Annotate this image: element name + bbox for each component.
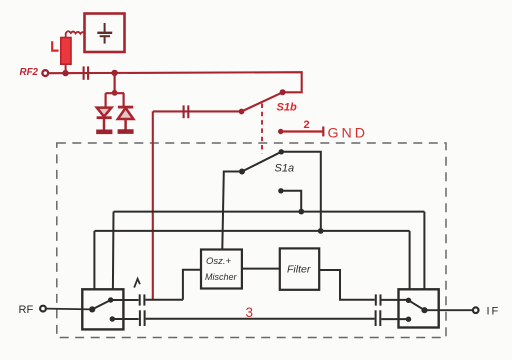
IF switch pivot bbox=[421, 307, 427, 313]
RF upper contact bbox=[108, 297, 113, 302]
bus B right drop bbox=[409, 231, 411, 289]
bus B (lower horizontal) bbox=[95, 230, 410, 232]
wire lower contact to C4 bbox=[112, 318, 138, 320]
svg-text:GND: GND bbox=[328, 125, 369, 141]
ground D1 bbox=[96, 130, 112, 135]
wire lower contact to bus A bbox=[281, 191, 301, 212]
dashed enclosure box (shield/case outline) bbox=[57, 143, 446, 338]
node at diode branch top bbox=[112, 90, 118, 96]
IF switch box S3 bbox=[399, 289, 439, 327]
switch S1b arm bbox=[239, 89, 286, 114]
wire S1a throw to bus B bbox=[281, 152, 321, 231]
svg-text:2: 2 bbox=[304, 119, 310, 131]
wire squiggle from inductor top to box bbox=[66, 31, 86, 38]
long bottom wire to C6 bbox=[146, 318, 375, 320]
wire cap to IF switch bbox=[382, 299, 409, 301]
node on bus A bbox=[298, 209, 304, 215]
svg-text:Mischer: Mischer bbox=[205, 272, 238, 282]
IF terminal bbox=[473, 307, 479, 313]
bus A (upper horizontal) bbox=[114, 211, 425, 213]
IF switch arm bbox=[409, 300, 425, 310]
wire mixer to filter bbox=[242, 268, 280, 270]
capacitor C4 bbox=[140, 310, 145, 326]
RF lower contact bbox=[110, 316, 115, 321]
svg-text:RF2: RF2 bbox=[20, 67, 39, 78]
RF switch arm bbox=[92, 300, 111, 309]
IF lower contact bbox=[406, 317, 411, 322]
wire upper contact to C3 bbox=[111, 299, 139, 301]
wire mixer left to RF path bbox=[183, 270, 201, 300]
filter box U3 bbox=[280, 248, 319, 289]
capacitor C3 bbox=[140, 294, 145, 305]
bus A left drop bbox=[112, 212, 115, 290]
wire C6 to IF switch bbox=[381, 318, 408, 320]
wire filter to IF cap bbox=[319, 270, 375, 300]
GND stub: node 2 bbox=[278, 129, 283, 134]
svg-text:RF: RF bbox=[19, 304, 34, 316]
capacitor C6 bbox=[376, 310, 381, 326]
capacitor C2 bbox=[184, 105, 189, 118]
label 1 bbox=[134, 279, 140, 288]
diode D2 (pointing up) bbox=[118, 107, 134, 130]
wire inductor bottom bbox=[65, 64, 67, 73]
svg-text:3: 3 bbox=[246, 305, 254, 320]
oscillator+mixer box U2 bbox=[201, 250, 242, 289]
RF terminal bbox=[40, 306, 46, 312]
inductor L (red filled choke) bbox=[61, 38, 71, 65]
IF upper contact bbox=[406, 298, 411, 303]
svg-text:IF: IF bbox=[487, 306, 501, 318]
svg-text:Filter: Filter bbox=[287, 264, 311, 276]
main red wire top bbox=[49, 72, 302, 92]
label L bbox=[52, 41, 58, 50]
wire C3 to mixer branch bbox=[145, 299, 183, 301]
ground D2 bbox=[118, 129, 134, 134]
crystal/battery box U1 bbox=[85, 14, 125, 53]
RF switch pivot bbox=[89, 306, 95, 312]
red vertical wire into box bbox=[152, 111, 154, 299]
GND bar bbox=[322, 127, 324, 137]
bus A right drop bbox=[423, 212, 425, 290]
S1a lower contact bbox=[278, 188, 283, 193]
node at diode branch bbox=[111, 70, 117, 76]
wire S1a pivot to mixer bbox=[222, 172, 242, 250]
node under L bbox=[62, 70, 68, 76]
wire to diode pair bbox=[106, 73, 125, 108]
diode D1 (pointing down) bbox=[97, 108, 112, 130]
bus B left drop bbox=[93, 231, 95, 289]
wire to S1b with capacitor C2 bbox=[153, 110, 241, 112]
wire RF terminal to box bbox=[46, 308, 92, 311]
node on bus B bbox=[318, 228, 324, 234]
switch S1a bbox=[239, 149, 284, 174]
battery-cell symbol inside box bbox=[97, 23, 112, 44]
capacitor C1 bbox=[84, 66, 89, 79]
svg-text:S1a: S1a bbox=[275, 163, 295, 175]
svg-text:S1b: S1b bbox=[277, 102, 297, 114]
mechanical linkage (red dashed) bbox=[261, 104, 263, 154]
wire to GND bbox=[281, 130, 323, 132]
svg-text:Osz.+: Osz.+ bbox=[206, 256, 232, 267]
capacitor C5 bbox=[376, 294, 381, 305]
wire pivot to IF terminal bbox=[425, 309, 473, 311]
RF switch box S2 bbox=[82, 289, 123, 329]
terminal RF2 bbox=[42, 70, 48, 76]
